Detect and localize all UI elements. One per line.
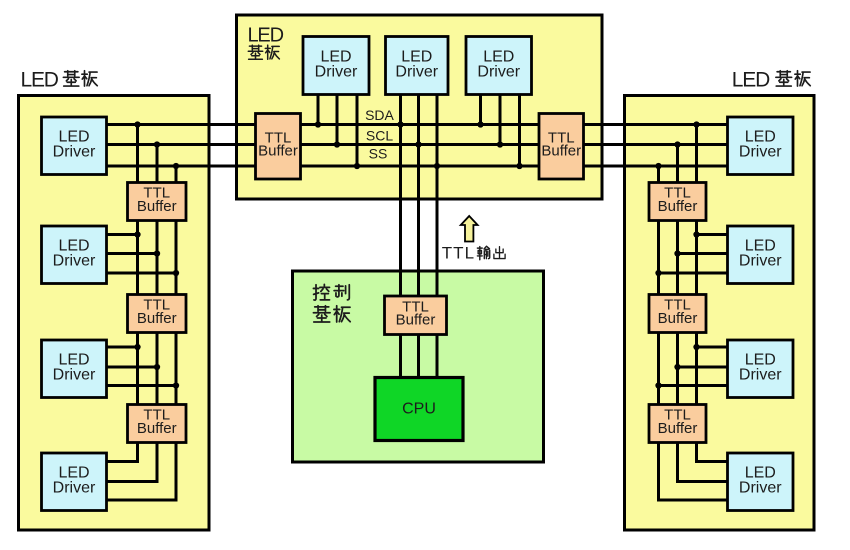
junction dot right driver3 stub 3 [655,382,661,388]
svg-text:Buffer: Buffer [541,143,581,160]
svg-text:SCL: SCL [366,128,393,144]
svg-text:Buffer: Buffer [396,312,436,329]
wire: right driver2 stub 2 [678,252,729,255]
svg-text:Driver: Driver [53,367,96,384]
svg-text:Buffer: Buffer [137,198,177,215]
svg-text:Buffer: Buffer [658,198,698,215]
block: CPU [375,378,463,441]
wire: right driver3 stub 1 [697,346,729,349]
svg-text:Buffer: Buffer [658,420,698,437]
wire: top driver1 pin 1 [317,95,320,125]
junction dot top driver1 pin1 [315,121,321,127]
block: left LED Driver 1 [42,117,107,175]
block: top-right TTL Buffer [539,114,584,180]
block: right TTL Buffer 3 [649,405,706,443]
junction dot right column on bus 1 [693,121,699,127]
block: left TTL Buffer 3 [128,405,187,443]
wire: top driver1 pin 2 [336,95,339,145]
junction dot right column on bus 2 [674,141,680,147]
wire: SDA bus horizontal [107,123,729,126]
junction dot top driver1 pin2 [334,141,340,147]
junction dot right driver2 stub 2 [674,250,680,256]
panel: control board (green) [293,271,544,462]
junction dot right column on bus 3 [655,163,661,169]
svg-text:Driver: Driver [53,480,96,497]
junction dot left driver2 stub 1 [134,231,140,237]
wire: left driver2 stub 2 [107,252,158,255]
svg-text:SDA: SDA [365,107,394,123]
junction dot right driver2 stub 3 [655,270,661,276]
wire: top driver3 pin 1 [479,95,482,125]
panel: top-center LED board [237,15,603,199]
junction dot left driver2 stub 3 [173,270,179,276]
wire: left column SDA drop to bottom driver [107,125,138,462]
block: left LED Driver 3 [42,340,107,398]
junction dot top driver1 pin3 [354,163,360,169]
junction dot left column on bus 2 [154,141,160,147]
block: top LED Driver 3 [466,37,532,95]
svg-text:SS: SS [369,146,388,162]
wire: SS bus horizontal [107,165,729,168]
block: control-board TTL Buffer [385,296,447,335]
junction dot right driver3 stub 1 [693,344,699,350]
wire: top driver2 pin 3 down to control TTL buffer [436,95,439,297]
svg-text:Driver: Driver [739,144,782,161]
junction dot top driver3 pin1 [477,121,483,127]
label: control board title kanji 'base board' [313,306,330,322]
wire: left driver2 stub 1 [107,233,138,236]
block: right LED Driver 4 [728,453,794,511]
junction dot top driver2 pin1 [397,121,403,127]
svg-text:Driver: Driver [53,144,96,161]
svg-text:Driver: Driver [53,253,96,270]
block: right LED Driver 2 [728,226,794,284]
block: top-left TTL Buffer [256,114,301,180]
block: right LED Driver 3 [728,340,794,398]
panel: left LED board [19,96,210,531]
junction dot left driver3 stub 3 [173,382,179,388]
block: right LED Driver 1 [728,117,794,175]
wire: top driver2 pin 2 down to control TTL buffer [417,95,420,297]
svg-text:Buffer: Buffer [258,143,298,160]
junction dot top driver3 pin2 [497,141,503,147]
label: right panel title kanji 'base board' [776,71,792,86]
svg-text:Driver: Driver [739,367,782,384]
svg-text:Driver: Driver [395,63,438,80]
block: left LED Driver 2 [42,226,107,284]
wire: right driver2 stub 3 [659,272,729,275]
wire: left driver3 stub 3 [107,384,177,387]
junction dot left driver2 stub 2 [154,250,160,256]
svg-text:LED: LED [732,69,770,92]
wire: control TTL buffer to CPU 1 [399,335,402,378]
block: right TTL Buffer 2 [649,295,706,333]
svg-text:CPU: CPU [402,401,436,418]
svg-text:Buffer: Buffer [137,420,177,437]
panel: right LED board [625,96,815,531]
junction dot top driver2 pin2 [415,141,421,147]
svg-text:Driver: Driver [477,63,520,80]
wire: right driver2 stub 1 [697,233,729,236]
junction dot left driver3 stub 2 [154,364,160,370]
block: left TTL Buffer 2 [128,295,187,333]
wire: left column SS drop to bottom driver [107,166,177,500]
wire: right driver3 stub 3 [659,384,729,387]
junction dot left driver3 stub 1 [134,344,140,350]
block: left TTL Buffer 1 [128,183,187,221]
wire: control TTL buffer to CPU 3 [436,335,439,378]
wire: top driver1 pin 3 [356,95,359,167]
wire: right column SCL drop to bottom driver [678,145,729,482]
wire: left column SCL drop to bottom driver [107,145,158,482]
svg-text:Driver: Driver [315,63,358,80]
svg-text:Buffer: Buffer [137,310,177,327]
junction dot left column on bus 1 [134,121,140,127]
block: left LED Driver 4 [42,453,107,511]
wire: right column SDA drop to bottom driver [697,125,729,462]
arrow: TTL output (yellow up arrow) [461,216,478,242]
wire: top driver2 pin 1 down to control TTL buffer [399,95,402,297]
wire: left driver2 stub 3 [107,272,177,275]
block: right TTL Buffer 1 [649,183,706,221]
svg-text:LED: LED [248,25,284,47]
svg-text:Driver: Driver [739,253,782,270]
junction dot right driver3 stub 2 [674,364,680,370]
junction dot top driver3 pin3 [516,163,522,169]
wire: left driver3 stub 1 [107,346,138,349]
label: left panel title kanji 'base board' [63,71,79,86]
label: top panel title kanji 'base board' [248,45,262,59]
svg-text:Buffer: Buffer [658,310,698,327]
junction dot right driver2 stub 1 [693,231,699,237]
junction dot top driver2 pin3 [434,163,440,169]
junction dot left column on bus 3 [173,163,179,169]
wire: top driver3 pin 2 [499,95,502,145]
wire: control TTL buffer to CPU 2 [417,335,420,378]
label: control board title kanji 'control' [313,284,329,300]
wire: left driver3 stub 2 [107,366,158,369]
wire: right column SS drop to bottom driver [659,166,729,500]
wire: top driver3 pin 3 [518,95,521,167]
svg-text:TTL: TTL [442,244,475,263]
svg-text:LED: LED [21,69,59,92]
wire: SCL bus horizontal [107,143,729,146]
wire: right driver3 stub 2 [678,366,729,369]
block: top LED Driver 2 [386,37,449,95]
svg-text:Driver: Driver [739,480,782,497]
block: top LED Driver 1 [303,37,369,95]
